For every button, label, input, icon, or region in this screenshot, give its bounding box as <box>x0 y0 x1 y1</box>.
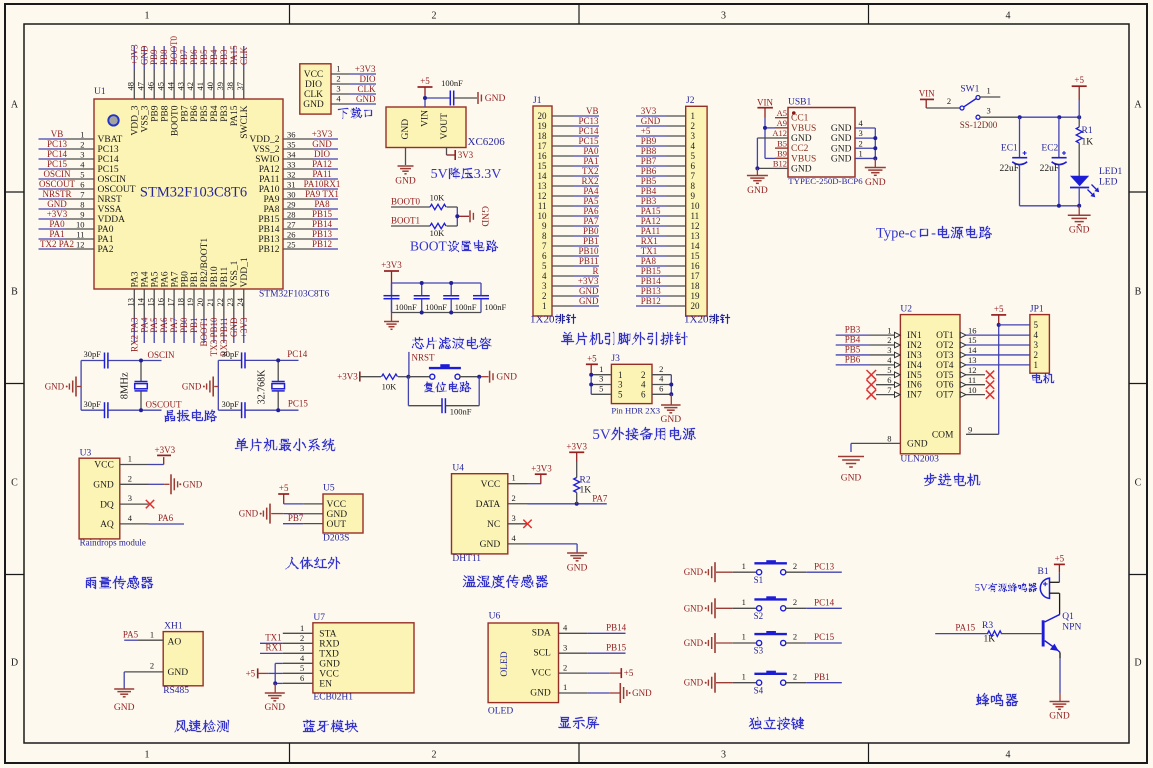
svg-text:C: C <box>1135 478 1142 489</box>
driver U2 pin 10 OT7 <box>936 385 994 401</box>
ground at regulator <box>395 166 416 187</box>
svg-text:PA11: PA11 <box>312 169 331 179</box>
svg-text:CC1: CC1 <box>791 114 809 124</box>
svg-text:PB0: PB0 <box>179 317 189 333</box>
label buzzer <box>976 693 1018 706</box>
driver U2 pin 5 IN5 <box>867 365 923 381</box>
usb USB1 right pin GND 3 <box>831 128 875 144</box>
sensor U3 pin 2 GND <box>93 473 148 490</box>
mcu U1 top pin 45 PB8 wire+label <box>155 46 170 122</box>
svg-text:4: 4 <box>128 513 133 523</box>
svg-text:1: 1 <box>742 671 746 681</box>
junction usb gnd <box>755 166 759 170</box>
svg-text:PB13: PB13 <box>312 229 333 239</box>
svg-text:1K: 1K <box>984 635 996 645</box>
svg-text:1: 1 <box>599 364 603 374</box>
svg-text:GND: GND <box>579 286 599 296</box>
connector JP1 pin 5 <box>1034 320 1039 330</box>
net label NRST wire <box>409 352 435 377</box>
svg-text:PC14: PC14 <box>578 126 599 136</box>
power VIN at usb <box>757 98 773 108</box>
power +5 at stepper <box>991 304 1006 325</box>
gnd port at S3 <box>684 633 733 653</box>
svg-text:4: 4 <box>641 380 646 390</box>
driver U2 pin 15 OT2 <box>936 335 1030 351</box>
module U7 pin 6 EN <box>283 673 332 690</box>
svg-text:DIO: DIO <box>360 74 376 84</box>
svg-text:1: 1 <box>80 130 84 140</box>
svg-text:PB1: PB1 <box>190 271 200 288</box>
capacitor C4 100nF filter <box>473 283 507 313</box>
svg-text:2: 2 <box>793 632 797 642</box>
header J1 pin 19 net PC13 wire+label <box>538 116 600 131</box>
wire U3 vcc to +3V3 <box>149 457 164 464</box>
svg-text:PA8: PA8 <box>263 205 279 215</box>
download port pin 3 CLK wire+label <box>304 84 376 101</box>
wire +5 to U5 vcc <box>284 503 303 505</box>
svg-text:1: 1 <box>145 11 150 22</box>
svg-text:3: 3 <box>563 642 567 652</box>
svg-text:PC13: PC13 <box>47 139 68 149</box>
module U7 pin 2 RXD <box>283 633 340 650</box>
svg-text:GND: GND <box>791 134 812 144</box>
svg-text:10K: 10K <box>382 382 398 392</box>
svg-text:43: 43 <box>175 82 185 91</box>
svg-text:Pin HDR 2X3: Pin HDR 2X3 <box>611 406 660 416</box>
power +5 at U7 <box>246 668 283 678</box>
svg-text:3V3: 3V3 <box>641 106 657 116</box>
svg-text:PA5: PA5 <box>150 271 160 287</box>
wire gnd to S4 <box>733 671 757 682</box>
svg-text:VCC: VCC <box>319 670 339 680</box>
svg-text:PA4: PA4 <box>139 317 149 333</box>
sensor U4 pin 1 VCC <box>481 473 528 490</box>
connector XH1 body <box>163 622 203 697</box>
power +5 at U5 <box>278 483 289 504</box>
svg-text:9: 9 <box>542 221 547 231</box>
svg-text:NRSTR: NRSTR <box>42 189 71 199</box>
svg-text:17: 17 <box>165 298 175 307</box>
usb USB1 pin A5 CC1 <box>775 108 809 124</box>
sensor U5 pin VCC <box>303 500 346 510</box>
gnd port at S1 <box>684 562 733 582</box>
label independent buttons <box>749 717 804 730</box>
net label OSCIN <box>148 350 176 360</box>
svg-text:VSS_1: VSS_1 <box>230 260 240 287</box>
svg-text:PA15: PA15 <box>641 206 661 216</box>
svg-text:1: 1 <box>1034 360 1039 370</box>
wire gnd to U5 <box>283 513 303 515</box>
svg-text:6: 6 <box>659 384 663 394</box>
junction button-cap <box>477 375 481 379</box>
label BOOT config circuit <box>410 239 498 254</box>
svg-text:44: 44 <box>165 81 175 90</box>
mcu U1 left pin 7 NRST wire+label <box>39 189 122 205</box>
svg-text:17: 17 <box>538 141 548 151</box>
header J1 pin 6 net PB10 wire+label <box>542 246 599 261</box>
svg-text:1: 1 <box>986 86 990 96</box>
svg-text:GND: GND <box>395 177 416 187</box>
svg-text:3: 3 <box>300 643 304 653</box>
svg-text:3: 3 <box>859 128 863 138</box>
svg-text:PA0: PA0 <box>98 225 114 235</box>
svg-text:U7: U7 <box>313 613 325 623</box>
download port connector body <box>300 64 331 114</box>
mcu U1 right pin 30 PA9 wire+label <box>263 189 338 205</box>
svg-text:OUT: OUT <box>327 520 347 530</box>
svg-text:OSCIN: OSCIN <box>148 350 176 360</box>
svg-text:GND: GND <box>45 382 65 392</box>
svg-text:2: 2 <box>512 493 516 503</box>
junction VIN-VBUS <box>763 126 767 130</box>
svg-text:TYPEC-250D-BCP6: TYPEC-250D-BCP6 <box>788 176 863 186</box>
usb USB1 right pin GND 4 <box>831 118 875 134</box>
wire regulator GND pin to earth <box>405 148 407 166</box>
mcu U1 top pin 42 PB6 wire+label <box>185 46 200 122</box>
sensor U5 D203S body <box>323 483 363 543</box>
junction NRST node <box>406 375 410 379</box>
svg-text:PB0: PB0 <box>583 226 599 236</box>
svg-text:GND: GND <box>747 186 768 196</box>
svg-text:PB12: PB12 <box>312 239 332 249</box>
svg-text:A12: A12 <box>772 128 787 138</box>
mcu U1 bottom pin 15 PA5 wire+label <box>145 271 160 343</box>
svg-text:OT6: OT6 <box>936 381 954 391</box>
svg-text:4: 4 <box>659 374 664 384</box>
header J2 pin 20 net PB12 wire+label <box>636 296 700 311</box>
wire S4 to PB1 <box>786 671 842 682</box>
svg-text:PC15: PC15 <box>47 159 68 169</box>
svg-text:47: 47 <box>135 82 145 91</box>
header J2 pin 2 net GND wire+label <box>636 116 695 131</box>
display U6 OLED body <box>488 612 559 717</box>
connector XH1 pin 1 AO <box>123 629 181 647</box>
svg-text:5V: 5V <box>592 427 611 443</box>
svg-text:7: 7 <box>691 171 696 181</box>
ground at U2 <box>838 457 864 484</box>
svg-text:A: A <box>1134 100 1142 111</box>
connector JP1 pin 2 <box>1034 350 1039 360</box>
svg-text:39: 39 <box>215 82 225 91</box>
mcu U1 top pin 39 PB3 wire+label <box>215 46 230 122</box>
svg-text:41: 41 <box>195 82 205 91</box>
svg-text:+3V3: +3V3 <box>129 44 139 65</box>
capacitor 100nF at regulator input <box>441 78 477 106</box>
svg-text:VCC: VCC <box>327 500 347 510</box>
svg-text:SCL: SCL <box>533 649 551 659</box>
svg-text:OT2: OT2 <box>936 341 954 351</box>
svg-text:GND: GND <box>1069 226 1090 236</box>
svg-text:2: 2 <box>641 370 646 380</box>
svg-text:PB6: PB6 <box>641 166 657 176</box>
svg-text:19: 19 <box>538 121 548 131</box>
label bluetooth module <box>303 720 358 732</box>
mcu U1 right pin 31 PA10 wire+label <box>259 179 341 195</box>
label chip filter caps <box>412 337 492 349</box>
usb connector USB1 body <box>788 97 863 186</box>
svg-text:PA12: PA12 <box>259 165 280 175</box>
svg-text:PA7: PA7 <box>169 317 179 333</box>
svg-text:A9: A9 <box>777 118 787 128</box>
svg-text:STM32F103C8T6: STM32F103C8T6 <box>259 290 329 300</box>
wire TX1 to U7 RXD <box>260 633 283 644</box>
svg-text:45: 45 <box>155 82 165 91</box>
svg-text:14: 14 <box>135 297 145 306</box>
sensor U4 pin 2 DATA <box>476 493 528 510</box>
svg-text:-: - <box>931 226 936 242</box>
svg-text:PB15: PB15 <box>312 209 333 219</box>
svg-text:CLK: CLK <box>239 46 249 65</box>
svg-text:9: 9 <box>80 210 84 220</box>
gnd port at U6 <box>620 683 652 703</box>
module U7 pin 3 TXD <box>283 643 339 660</box>
svg-text:PA6: PA6 <box>158 513 174 523</box>
svg-text:2: 2 <box>659 364 663 374</box>
svg-text:D203S: D203S <box>323 534 349 544</box>
svg-text:5V: 5V <box>431 167 448 182</box>
svg-text:3: 3 <box>691 131 696 141</box>
power VIN at switch <box>919 88 935 108</box>
gnd port at 32k <box>182 377 218 397</box>
svg-text:U4: U4 <box>452 464 464 474</box>
svg-text:4: 4 <box>1006 11 1011 22</box>
svg-text:12: 12 <box>691 221 700 231</box>
svg-text:1K: 1K <box>580 486 592 496</box>
label rain sensor <box>86 576 153 589</box>
svg-text:PA4: PA4 <box>583 186 599 196</box>
svg-text:RX2: RX2 <box>581 176 598 186</box>
power +3V3 at U4 <box>531 463 552 474</box>
svg-text:VB: VB <box>51 129 64 139</box>
svg-text:100nF: 100nF <box>485 302 507 312</box>
sensor U4 DHT11 body <box>452 464 508 564</box>
wire U6 GND <box>588 692 620 694</box>
svg-text:5: 5 <box>618 390 623 400</box>
svg-text:PB5: PB5 <box>199 49 209 65</box>
svg-text:13: 13 <box>538 181 548 191</box>
label reset circuit <box>424 381 471 392</box>
svg-text:D: D <box>11 658 18 669</box>
svg-text:5: 5 <box>80 170 84 180</box>
junction +5 stepper <box>997 323 1001 327</box>
svg-text:TX2 PA2: TX2 PA2 <box>40 239 74 249</box>
power +3V3 at R2 <box>566 441 587 461</box>
mcu U1 right pin 26 PB13 wire+label <box>258 229 338 245</box>
svg-text:OT3: OT3 <box>936 351 954 361</box>
svg-text:1: 1 <box>150 629 154 639</box>
display U6 pin 3 SCL <box>533 642 587 658</box>
driver U2 ULN2003 body <box>900 305 960 465</box>
svg-text:PB3: PB3 <box>220 105 230 122</box>
svg-text:GND: GND <box>831 124 852 134</box>
svg-text:OLED: OLED <box>488 706 513 716</box>
svg-text:PA2: PA2 <box>98 245 114 255</box>
mcu U1 bottom pin 22 PB11 wire+label <box>215 266 230 356</box>
capacitor 30pF top right <box>222 349 245 368</box>
label wind speed detect <box>174 720 229 732</box>
svg-text:J3: J3 <box>611 354 620 364</box>
header J1 pin 9 net PA7 wire+label <box>542 216 599 231</box>
svg-text:BOOT1: BOOT1 <box>199 318 209 347</box>
header J2 pin 10 net PB3 wire+label <box>636 196 700 211</box>
wire PA15 to R3 <box>935 623 988 634</box>
svg-text:PB11: PB11 <box>220 266 230 287</box>
svg-text:GND: GND <box>139 45 149 65</box>
mcu U1 bottom pin 23 VSS_1 wire+label <box>225 260 240 343</box>
resistor 10K reset <box>382 374 409 392</box>
header J2 pin 17 net PB15 wire+label <box>636 266 700 281</box>
wire VOUT to 3V3 <box>447 148 456 156</box>
svg-text:3: 3 <box>1034 340 1039 350</box>
svg-text:1: 1 <box>742 561 746 571</box>
svg-text:XH1: XH1 <box>164 622 183 632</box>
svg-text:5: 5 <box>300 663 304 673</box>
svg-text:GND: GND <box>479 206 489 227</box>
wire button to gnd <box>460 376 489 378</box>
svg-text:PB8: PB8 <box>159 49 169 65</box>
svg-text:4: 4 <box>1006 750 1011 761</box>
svg-text:OT1: OT1 <box>936 331 954 341</box>
svg-text:DIO: DIO <box>305 80 322 90</box>
svg-text:R1: R1 <box>1082 126 1093 136</box>
svg-text:14: 14 <box>968 345 977 355</box>
wire U4 gnd <box>528 544 578 553</box>
svg-text:VSSA: VSSA <box>98 205 122 215</box>
mcu U1 bottom pin 13 PA3 wire+label <box>126 271 141 352</box>
power +5 at led circuit <box>1072 75 1087 117</box>
wire led circuit bottom bus <box>1020 205 1080 207</box>
svg-text:TXD: TXD <box>319 650 339 660</box>
svg-text:PA9: PA9 <box>263 195 279 205</box>
header J1 pin 12 net PA4 wire+label <box>538 186 600 201</box>
header J1 pin 5 net PB11 wire+label <box>542 256 599 271</box>
header J1 pin 11 net PA5 wire+label <box>538 196 599 211</box>
svg-text:ULN2003: ULN2003 <box>900 455 939 465</box>
label type-c power circuit <box>876 226 992 242</box>
svg-text:5: 5 <box>691 151 696 161</box>
sensor U4 pin 3 NC <box>487 513 528 530</box>
svg-text:B: B <box>11 287 18 298</box>
svg-text:USB1: USB1 <box>788 97 811 107</box>
svg-text:STM32F103C8T6: STM32F103C8T6 <box>140 185 247 201</box>
capacitor 30pF bottom right <box>222 399 245 418</box>
svg-text:26: 26 <box>287 230 296 240</box>
wire U7 GND-EN bus <box>275 663 283 683</box>
svg-text:IN7: IN7 <box>907 391 922 401</box>
svg-text:GND: GND <box>1049 712 1070 722</box>
display U6 pin 1 GND <box>530 682 587 698</box>
svg-text:NRST: NRST <box>412 353 436 363</box>
svg-text:PB5: PB5 <box>845 345 861 355</box>
svg-text:33: 33 <box>287 160 296 170</box>
wire usb right gnd bus <box>874 128 876 158</box>
svg-text:GND: GND <box>183 479 203 489</box>
svg-text:IN2: IN2 <box>907 341 922 351</box>
svg-text:PA11: PA11 <box>641 226 660 236</box>
svg-text:SDA: SDA <box>532 629 551 639</box>
sensor U5 pin GND <box>303 510 347 520</box>
svg-text:8MHz: 8MHz <box>120 372 131 399</box>
svg-text:+5: +5 <box>1055 553 1065 563</box>
svg-text:10: 10 <box>538 211 548 221</box>
svg-text:34: 34 <box>287 150 296 160</box>
svg-text:100nF: 100nF <box>441 78 463 88</box>
svg-text:RX1: RX1 <box>641 236 658 246</box>
mcu U1 top pin 40 PB4 wire+label <box>205 46 220 122</box>
svg-text:2: 2 <box>80 140 84 150</box>
svg-text:4: 4 <box>691 141 696 151</box>
svg-text:2: 2 <box>887 335 891 345</box>
svg-text:TX1: TX1 <box>265 633 282 643</box>
svg-text:+5: +5 <box>994 304 1004 314</box>
svg-text:PB3: PB3 <box>219 49 229 65</box>
svg-text:+3V3: +3V3 <box>578 276 599 286</box>
svg-text:PA6: PA6 <box>160 271 170 287</box>
label human infrared <box>285 557 340 569</box>
capacitor 30pF top left <box>84 349 108 369</box>
svg-text:OSCOUT: OSCOUT <box>146 400 183 410</box>
svg-text:10K: 10K <box>430 193 446 203</box>
wire S1 to PC13 <box>786 561 842 572</box>
svg-text:15: 15 <box>968 335 977 345</box>
svg-text:PB8: PB8 <box>160 105 170 122</box>
svg-text:100nF: 100nF <box>395 302 417 312</box>
download port pin 2 DIO wire+label <box>305 74 376 91</box>
svg-text:IN6: IN6 <box>907 381 922 391</box>
svg-text:32.768K: 32.768K <box>257 369 268 405</box>
svg-text:LED: LED <box>1099 178 1118 188</box>
svg-text:PA10: PA10 <box>259 185 280 195</box>
display U6 pin 4 SDA <box>532 623 588 639</box>
svg-text:BOOT0: BOOT0 <box>391 196 420 206</box>
svg-text:17: 17 <box>691 271 701 281</box>
svg-text:VIN: VIN <box>757 98 773 108</box>
svg-text:8: 8 <box>887 434 891 444</box>
svg-text:GND: GND <box>831 154 852 164</box>
wire U6 SDA to PB14 <box>588 623 627 634</box>
svg-text:3: 3 <box>599 374 603 384</box>
svg-text:30pF: 30pF <box>222 399 240 409</box>
usb USB1 pin B9 VBUS <box>775 148 816 164</box>
svg-text:GND: GND <box>831 144 852 154</box>
ground at usb right <box>865 168 886 189</box>
svg-text:GND: GND <box>791 164 812 174</box>
svg-text:OSCIN: OSCIN <box>98 175 127 185</box>
svg-text:14: 14 <box>538 171 548 181</box>
sensor U3 pin 1 VCC <box>94 454 148 471</box>
svg-text:TX2: TX2 <box>582 166 599 176</box>
svg-text:PB4: PB4 <box>641 186 657 196</box>
svg-text:PB2/BOOT1: PB2/BOOT1 <box>200 238 210 288</box>
svg-text:6: 6 <box>691 161 696 171</box>
mcu U1 bottom pin 19 PB1 wire+label <box>185 271 200 343</box>
svg-text:+5: +5 <box>587 353 597 363</box>
header J2 pin 4 net PB9 wire+label <box>636 136 696 151</box>
svg-text:IN4: IN4 <box>907 361 922 371</box>
svg-text:18: 18 <box>691 281 701 291</box>
module U7 pin 1 STA <box>283 623 337 640</box>
capacitor C1 100nF filter <box>384 283 418 313</box>
wire buzzer to Q1 collector <box>1059 593 1061 614</box>
svg-text:2: 2 <box>128 473 132 483</box>
svg-text:OLED: OLED <box>500 651 510 676</box>
header J3 row 0 pins <box>591 364 671 380</box>
capacitor 30pF bottom left <box>84 399 108 418</box>
svg-text:PB4: PB4 <box>209 49 219 65</box>
svg-text:GND: GND <box>865 178 886 188</box>
svg-text:22: 22 <box>215 298 225 307</box>
svg-text:B12: B12 <box>773 159 787 169</box>
